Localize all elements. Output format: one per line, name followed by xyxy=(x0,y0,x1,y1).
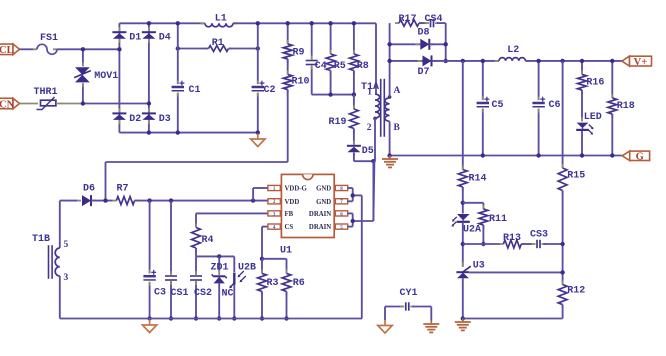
wire CS line xyxy=(262,227,268,259)
svg-text:THR1: THR1 xyxy=(34,87,58,98)
label R11 xyxy=(489,214,507,225)
wire R13 to CS3 xyxy=(521,243,532,245)
capacitor CS4 xyxy=(425,19,439,27)
resistor R10 xyxy=(283,71,292,94)
svg-text:R12: R12 xyxy=(567,286,585,297)
wire THR1 to MOV node (gray) xyxy=(56,103,83,105)
node C2 top xyxy=(256,21,260,25)
svg-text:NC: NC xyxy=(222,289,234,300)
label D6 xyxy=(83,184,95,195)
thermistor THR1 xyxy=(37,97,56,110)
svg-text:DRAIN: DRAIN xyxy=(309,211,331,218)
svg-text:CN: CN xyxy=(0,99,15,110)
wire R15 down xyxy=(562,191,564,285)
svg-text:D3: D3 xyxy=(159,114,171,125)
label CS2 xyxy=(194,288,212,299)
node R6 bottom xyxy=(284,316,288,320)
wire bridge left vertical xyxy=(118,23,120,132)
svg-text:R6: R6 xyxy=(293,278,305,289)
transformer T1B winding xyxy=(55,248,60,276)
label U2B xyxy=(238,263,256,274)
wire top rail mid xyxy=(233,22,376,24)
node R8 bottom xyxy=(352,92,356,96)
label D7 xyxy=(418,67,430,78)
capacitor CS1 xyxy=(165,201,177,319)
pin label GND 8 xyxy=(316,186,331,193)
pin label FB xyxy=(285,211,294,218)
ground CY1 right (ladder) xyxy=(423,321,439,333)
node drain-D5 xyxy=(371,159,375,163)
wire R13 line xyxy=(463,243,500,245)
node C3 bottom xyxy=(147,316,151,320)
pin 5 box xyxy=(335,224,347,231)
svg-text:T1B: T1B xyxy=(32,234,50,245)
node R8 top xyxy=(352,21,356,25)
wire FS1 to bridge xyxy=(57,48,119,50)
wire primary bottom to drain xyxy=(373,118,375,221)
svg-text:VDD-G: VDD-G xyxy=(285,186,308,193)
ground under T1A (ladder) xyxy=(382,156,398,168)
transformer T1B core xyxy=(49,245,53,279)
svg-text:R13: R13 xyxy=(503,233,521,244)
node CN-bridge xyxy=(147,101,151,105)
wire snubber right vertical xyxy=(445,23,447,61)
wire DRAIN pins xyxy=(348,161,374,226)
node C3 top xyxy=(147,198,151,202)
wire FB line xyxy=(196,213,268,227)
node R15-CS3 xyxy=(560,242,564,246)
label D4 xyxy=(159,33,171,44)
inductor L1 xyxy=(201,23,238,27)
pin 7 box xyxy=(335,199,347,206)
ground under U3 (ladder) xyxy=(455,319,471,331)
node C1 bottom xyxy=(176,130,180,134)
label CS4 xyxy=(425,14,443,25)
wire drain-left horizontal xyxy=(106,161,288,163)
node C5 top xyxy=(481,59,485,63)
node C6 bottom xyxy=(536,153,540,157)
node D4 top xyxy=(147,21,151,25)
label R17 xyxy=(399,14,417,25)
wire CY1 right xyxy=(413,307,432,321)
label R5 xyxy=(334,61,346,72)
connector CL xyxy=(0,44,20,56)
wire U2A to R13 line xyxy=(462,222,464,266)
svg-text:1: 1 xyxy=(367,88,372,98)
svg-text:3: 3 xyxy=(64,273,69,283)
wire top rail to pin1 xyxy=(375,23,377,94)
diode D8 xyxy=(415,39,434,50)
node C6 top xyxy=(536,59,540,63)
node CS-R3 xyxy=(260,257,264,261)
resistor R4 xyxy=(192,224,201,253)
label U1 xyxy=(280,246,292,257)
wire D8 line left xyxy=(390,43,421,45)
capacitor C6 xyxy=(532,61,545,156)
label NC xyxy=(222,289,234,300)
node LED bottom xyxy=(580,153,584,157)
transformer T1A primary xyxy=(373,94,379,120)
label T1B xyxy=(32,234,50,245)
label R9 xyxy=(293,48,305,59)
svg-text:D7: D7 xyxy=(418,67,430,78)
pin label DRAIN 5 xyxy=(309,224,331,231)
pin 3 label xyxy=(64,273,69,283)
wire bridge bottom rail xyxy=(119,132,258,134)
svg-text:U3: U3 xyxy=(473,261,485,272)
wire T1B top xyxy=(60,201,78,248)
label D5 xyxy=(362,146,374,157)
node R16 top xyxy=(580,59,584,63)
node C5 bottom xyxy=(481,153,485,157)
inductor L2 xyxy=(495,58,530,61)
wire R6 top link xyxy=(262,259,287,274)
node ZD1 bottom xyxy=(217,316,221,320)
node CL-bridge xyxy=(117,47,121,51)
wire snubber left vertical xyxy=(389,23,391,61)
label R18 xyxy=(617,101,635,112)
diode D2 xyxy=(112,108,126,124)
label CS3 xyxy=(530,230,548,241)
connector V+ xyxy=(622,56,652,68)
svg-text:C1: C1 xyxy=(189,85,201,96)
node R5 bottom xyxy=(328,92,332,96)
label FS1 xyxy=(40,33,58,44)
capacitor C5 xyxy=(477,61,490,156)
resistor R11 xyxy=(479,205,488,229)
diode D7 xyxy=(418,55,437,66)
label D3 xyxy=(159,114,171,125)
label R15 xyxy=(567,171,585,182)
transformer T1A secondary xyxy=(385,95,391,121)
node ZD1 top xyxy=(217,254,221,258)
label T1A xyxy=(361,82,379,93)
svg-text:R17: R17 xyxy=(399,14,417,25)
wire D8 line right xyxy=(429,43,445,45)
wire R14 to U2A xyxy=(462,187,464,214)
svg-text:C5: C5 xyxy=(492,100,504,111)
svg-text:D5: D5 xyxy=(362,146,374,157)
pin B label xyxy=(394,123,401,133)
node R11 tap xyxy=(461,201,465,205)
svg-text:MOV1: MOV1 xyxy=(94,71,118,82)
pin A label xyxy=(394,86,401,96)
wire R11 top xyxy=(463,203,484,209)
wire MOV node to bridge xyxy=(83,103,149,105)
capacitor C2 xyxy=(252,23,265,132)
diode D6 xyxy=(77,195,96,206)
svg-text:CL: CL xyxy=(0,45,14,56)
wire U3 down xyxy=(462,278,464,318)
svg-text:R16: R16 xyxy=(586,78,604,89)
resistor R17 xyxy=(395,20,423,26)
node CS2 bottom xyxy=(194,316,198,320)
pin label VDD-G xyxy=(285,186,308,193)
label MOV1 xyxy=(94,71,118,82)
svg-text:VDD: VDD xyxy=(285,199,300,206)
node R15 top xyxy=(560,59,564,63)
label R6 xyxy=(293,278,305,289)
label C1 xyxy=(189,85,201,96)
wire R9-R10 xyxy=(287,59,289,75)
svg-text:R8: R8 xyxy=(357,61,369,72)
svg-text:FB: FB xyxy=(285,211,294,218)
node D7 left xyxy=(387,59,391,63)
svg-text:R5: R5 xyxy=(334,61,346,72)
zener ZD1 xyxy=(212,256,227,318)
capacitor CY1 xyxy=(400,302,414,310)
wire CN to THR1 (gray) xyxy=(20,103,39,105)
connector CN xyxy=(0,98,20,110)
wire R12 to ground rail xyxy=(463,305,563,319)
label ZD1 xyxy=(211,263,229,274)
wire CS3 right xyxy=(544,243,563,245)
ground below bridge xyxy=(251,134,265,147)
wire R3 bottom xyxy=(261,291,263,318)
pin 5 label xyxy=(64,240,69,250)
node R15-U3 xyxy=(560,270,564,274)
wire D6 to R7 xyxy=(91,200,113,202)
wire R1 left xyxy=(178,48,209,50)
wire R4 down xyxy=(195,248,197,256)
node DRAIN pins xyxy=(351,219,355,223)
node C1 top xyxy=(176,21,180,25)
label C4 xyxy=(315,61,327,72)
svg-text:GND: GND xyxy=(316,199,331,206)
svg-text:D4: D4 xyxy=(159,33,171,44)
label D1 xyxy=(129,33,141,44)
label U2A xyxy=(463,225,481,236)
label C5 xyxy=(492,100,504,111)
svg-text:D8: D8 xyxy=(418,28,430,39)
resistor R15 xyxy=(558,164,567,195)
wire clamp bottom xyxy=(312,94,354,96)
ground CY1 left (open) xyxy=(378,320,392,333)
label R8 xyxy=(357,61,369,72)
label C2 xyxy=(264,85,276,96)
resistor R16 xyxy=(578,61,587,119)
wire bridge right vertical xyxy=(148,23,150,132)
svg-text:L2: L2 xyxy=(507,45,519,56)
wire D7 line left xyxy=(390,60,423,62)
wire B corner to G rail xyxy=(390,155,622,157)
svg-text:C4: C4 xyxy=(315,61,327,72)
svg-text:CS2: CS2 xyxy=(194,288,212,299)
svg-text:R10: R10 xyxy=(292,77,310,88)
node R13 left xyxy=(461,242,465,246)
wire CL to FS1 xyxy=(20,48,34,50)
wire top rail left xyxy=(119,22,205,24)
label L2 xyxy=(507,45,519,56)
capacitor CS2 xyxy=(190,256,202,318)
label D2 xyxy=(129,114,141,125)
node R18 bottom xyxy=(610,153,614,157)
node C2 bottom xyxy=(256,130,260,134)
node MOV-CL xyxy=(81,47,85,51)
pin 8 box xyxy=(335,185,347,192)
resistor R18 xyxy=(608,61,617,156)
svg-text:L1: L1 xyxy=(215,14,227,25)
diode D5 xyxy=(347,141,361,157)
node U3 ground xyxy=(461,316,465,320)
wire U3 ref line xyxy=(469,271,562,273)
svg-text:R4: R4 xyxy=(202,235,214,246)
diode D3 xyxy=(142,108,156,124)
capacitor CS3 xyxy=(532,240,546,248)
svg-text:A: A xyxy=(394,86,401,96)
label R10 xyxy=(292,77,310,88)
wire R4 bottom link xyxy=(196,255,234,257)
label R16 xyxy=(586,78,604,89)
pin label GND 7 xyxy=(316,199,331,206)
LED xyxy=(576,117,593,156)
pin 2 label xyxy=(367,123,372,133)
svg-text:CS1: CS1 xyxy=(171,288,189,299)
wire CS4 right xyxy=(437,22,446,24)
svg-text:D1: D1 xyxy=(129,33,141,44)
diode D4 xyxy=(142,27,156,43)
svg-text:U2A: U2A xyxy=(463,225,481,236)
label U3 xyxy=(473,261,485,272)
pin label VDD xyxy=(285,199,300,206)
svg-text:R3: R3 xyxy=(267,278,279,289)
resistor R14 xyxy=(458,166,467,192)
diode D1 xyxy=(112,27,126,43)
node D8 right xyxy=(444,42,448,46)
wire R15 vertical xyxy=(562,61,564,168)
svg-text:R18: R18 xyxy=(617,101,635,112)
node R9 top xyxy=(286,21,290,25)
svg-text:D6: D6 xyxy=(83,184,95,195)
resistor R19 xyxy=(350,95,359,133)
svg-text:CY1: CY1 xyxy=(400,288,418,299)
node R5 top xyxy=(328,21,332,25)
svg-text:5: 5 xyxy=(64,240,69,250)
label R1 xyxy=(212,38,224,49)
node D6-R7 xyxy=(103,198,107,202)
svg-text:U2B: U2B xyxy=(238,263,256,274)
wire bottom rail xyxy=(60,318,362,320)
node R11-R13 xyxy=(481,242,485,246)
label R7 xyxy=(117,184,129,195)
pin label CS xyxy=(285,224,294,231)
resistor R1 xyxy=(205,46,233,52)
resistor R6 xyxy=(282,269,291,295)
label R3 xyxy=(267,278,279,289)
label R14 xyxy=(469,174,487,185)
varistor MOV1 xyxy=(74,49,91,103)
pin 2 box xyxy=(268,199,280,206)
label C6 xyxy=(549,100,561,111)
opto LED U2A xyxy=(452,214,470,227)
svg-text:R9: R9 xyxy=(293,48,305,59)
pin 1 box xyxy=(268,185,280,192)
resistor R12 xyxy=(558,281,567,309)
svg-text:R14: R14 xyxy=(469,174,487,185)
opto transistor U2B xyxy=(229,256,246,318)
wire CY1 left xyxy=(385,307,402,321)
label R4 xyxy=(202,235,214,246)
svg-text:ZD1: ZD1 xyxy=(211,263,229,274)
label CY1 xyxy=(400,288,418,299)
pin 4 box xyxy=(268,224,280,231)
svg-text:R11: R11 xyxy=(489,214,507,225)
ground below C3 xyxy=(142,320,156,333)
shunt regulator U3 xyxy=(456,262,470,278)
node R18 top xyxy=(610,59,614,63)
wire R19 to D5 xyxy=(353,129,355,145)
svg-text:D2: D2 xyxy=(129,114,141,125)
svg-text:B: B xyxy=(394,123,401,133)
wire secondary bottom xyxy=(389,121,391,155)
resistor R5 xyxy=(326,23,335,94)
label R13 xyxy=(503,233,521,244)
node D8 left xyxy=(387,42,391,46)
svg-text:C6: C6 xyxy=(549,100,561,111)
node B-ground xyxy=(387,153,391,157)
svg-text:V+: V+ xyxy=(634,57,648,68)
transformer T1A core xyxy=(381,79,385,137)
wire R1 right xyxy=(229,48,258,50)
node U2B bottom xyxy=(232,316,236,320)
label R12 xyxy=(567,286,585,297)
wire secondary top xyxy=(389,61,391,97)
node CS1 top xyxy=(169,198,173,202)
label CS1 xyxy=(171,288,189,299)
wire R14 vertical xyxy=(462,61,464,170)
resistor R8 xyxy=(350,23,359,94)
svg-text:C3: C3 xyxy=(154,288,166,299)
node R1-C1 xyxy=(176,46,180,50)
svg-text:U1: U1 xyxy=(280,246,292,257)
capacitor C4 xyxy=(306,23,318,94)
wire V+ rail right xyxy=(525,60,622,62)
node GND pins xyxy=(351,193,355,197)
fuse FS1 xyxy=(33,44,57,54)
node MOV-CN xyxy=(81,101,85,105)
connector G xyxy=(622,151,649,163)
wire V+ rail xyxy=(432,60,500,62)
resistor R13 xyxy=(499,240,525,248)
wire R6 bottom xyxy=(286,291,288,318)
svg-text:CS3: CS3 xyxy=(530,230,548,241)
capacitor C1 xyxy=(172,23,185,132)
svg-text:R15: R15 xyxy=(567,171,585,182)
svg-text:G: G xyxy=(636,152,644,163)
svg-text:CS: CS xyxy=(285,224,294,231)
resistor R7 xyxy=(112,197,138,205)
svg-text:R19: R19 xyxy=(329,117,347,128)
svg-text:GND: GND xyxy=(316,186,331,193)
node D7 right xyxy=(444,59,448,63)
wire D5 down xyxy=(354,153,374,161)
resistor R3 xyxy=(258,259,267,296)
node VDD-G tie xyxy=(251,198,255,202)
svg-text:C2: C2 xyxy=(264,85,276,96)
wire GND pins xyxy=(348,188,362,319)
wire VDD-G elbow xyxy=(253,188,268,201)
svg-text:R1: R1 xyxy=(212,38,224,49)
svg-text:R7: R7 xyxy=(117,184,129,195)
label THR1 xyxy=(34,87,58,98)
wire R17 to CS4 xyxy=(419,22,427,24)
label R19 xyxy=(329,117,347,128)
wire VDD line xyxy=(135,200,268,202)
label D8 xyxy=(418,28,430,39)
node D3 bottom xyxy=(147,130,151,134)
resistor R9 xyxy=(283,23,292,63)
node C4 top xyxy=(310,21,314,25)
